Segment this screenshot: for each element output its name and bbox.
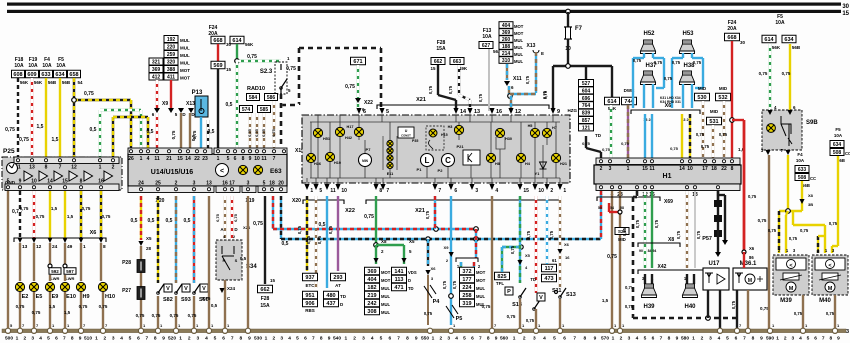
- wire green from 614 with junction: [236, 44, 238, 61]
- svg-text:17: 17: [229, 181, 235, 187]
- svg-text:AT: AT: [335, 283, 341, 288]
- svg-text:5: 5: [263, 181, 266, 187]
- svg-text:0,75: 0,75: [171, 130, 176, 139]
- wire yellow 1,5 from 633 to P25 pin 8: [45, 78, 47, 157]
- svg-text:56K: 56K: [772, 45, 781, 50]
- svg-text:8: 8: [154, 336, 157, 342]
- wire black-white from S2.3 to E63 pin 7: [280, 94, 283, 150]
- svg-text:10A: 10A: [42, 63, 52, 69]
- svg-text:0,5: 0,5: [211, 303, 218, 308]
- instrument cluster: [302, 115, 570, 183]
- wire tag 671: [351, 57, 366, 65]
- svg-text:2: 2: [550, 188, 553, 194]
- svg-text:13: 13: [22, 244, 28, 250]
- svg-text:M: M: [789, 286, 794, 292]
- svg-text:P2: P2: [438, 168, 444, 173]
- svg-text:E2: E2: [22, 294, 29, 300]
- lamp E5: [29, 282, 38, 291]
- svg-text:X21: X21: [415, 208, 425, 214]
- svg-text:0,75: 0,75: [5, 127, 15, 133]
- svg-text:MOT: MOT: [514, 24, 524, 29]
- svg-text:550: 550: [421, 336, 429, 342]
- svg-text:1: 1: [776, 336, 779, 342]
- wire tag 321 320 MUL: [149, 58, 163, 65]
- svg-text:P28: P28: [122, 260, 131, 266]
- svg-text:5: 5: [644, 336, 647, 342]
- svg-text:1: 1: [612, 336, 615, 342]
- tags 951 906 RBS: [303, 291, 318, 299]
- wire black F7 to cluster pin 9: [552, 66, 554, 111]
- svg-text:1: 1: [179, 336, 182, 342]
- wire brown H1 pin 4 to ground bus: [611, 191, 613, 329]
- wire black 0,5 from 569 to U14 pin 1: [217, 69, 219, 150]
- svg-text:S14: S14: [512, 302, 523, 308]
- svg-text:H1: H1: [663, 173, 672, 180]
- wire tag 609: [26, 70, 39, 78]
- cluster top pins: [356, 108, 361, 114]
- svg-text:7: 7: [145, 336, 148, 342]
- svg-text:15: 15: [62, 179, 68, 185]
- svg-text:7: 7: [59, 165, 62, 171]
- svg-text:188: 188: [502, 44, 511, 50]
- svg-text:MUL: MUL: [381, 310, 391, 315]
- svg-text:H10: H10: [105, 294, 115, 300]
- svg-text:0,75: 0,75: [676, 230, 681, 239]
- wire yellow X6 to H1 pin 14: [681, 114, 683, 158]
- svg-text:15A: 15A: [436, 46, 446, 52]
- svg-text:3: 3: [280, 336, 283, 342]
- svg-text:0,75: 0,75: [328, 225, 333, 234]
- svg-text:121: 121: [582, 125, 591, 131]
- svg-text:7: 7: [743, 336, 746, 342]
- svg-text:E11: E11: [387, 172, 394, 176]
- svg-text:61: 61: [552, 258, 557, 263]
- svg-text:P21: P21: [456, 144, 464, 149]
- lamp E10: [60, 282, 69, 291]
- svg-text:S9B: S9B: [806, 120, 818, 126]
- svg-text:6: 6: [652, 336, 655, 342]
- svg-text:P57: P57: [702, 236, 712, 242]
- svg-text:M36.1: M36.1: [740, 261, 757, 267]
- svg-text:260: 260: [502, 37, 511, 43]
- lamp E9: [45, 282, 54, 291]
- svg-text:0,75: 0,75: [748, 194, 757, 199]
- wire red-white P25 pin 10 to lamp E5: [33, 191, 35, 238]
- junction red branch: [730, 118, 735, 123]
- svg-text:X21: X21: [416, 97, 426, 103]
- svg-text:MUL: MUL: [476, 294, 486, 299]
- svg-text:586: 586: [267, 95, 276, 101]
- svg-text:P1: P1: [417, 167, 423, 172]
- heater resistors P28 P27: [140, 246, 142, 329]
- svg-text:2: 2: [103, 336, 106, 342]
- lamp H9: [76, 282, 85, 291]
- wire yellow U14 pin 25 to switch S82: [157, 196, 159, 283]
- svg-text:310: 310: [502, 58, 511, 64]
- svg-text:TFL: TFL: [496, 281, 504, 286]
- sensor P5: [446, 305, 458, 318]
- svg-text:9: 9: [495, 336, 498, 342]
- svg-text:F4: F4: [797, 152, 803, 157]
- svg-text:7: 7: [231, 336, 234, 342]
- wire tag 839: [579, 109, 594, 116]
- svg-text:0,75: 0,75: [136, 313, 145, 318]
- svg-text:V: V: [539, 295, 543, 301]
- svg-text:H51: H51: [323, 137, 330, 141]
- svg-text:3: 3: [609, 166, 612, 172]
- svg-text:6: 6: [55, 336, 58, 342]
- svg-text:56K: 56K: [20, 80, 29, 85]
- wire yellow branch to M40: [792, 211, 794, 225]
- svg-text:LWR: LWR: [66, 276, 75, 281]
- svg-text:0,75: 0,75: [782, 71, 791, 76]
- svg-text:17: 17: [702, 166, 708, 172]
- svg-text:220: 220: [167, 45, 176, 51]
- wire tag 586: [265, 94, 278, 101]
- svg-text:15: 15: [842, 11, 849, 17]
- svg-text:320: 320: [167, 60, 176, 66]
- svg-text:R: R: [223, 258, 226, 263]
- svg-text:H39: H39: [643, 304, 655, 310]
- svg-text:1: 1: [344, 336, 347, 342]
- wire black-white dashed loop: [299, 47, 381, 50]
- svg-text:5: 5: [129, 336, 132, 342]
- svg-text:6: 6: [471, 336, 474, 342]
- wire brown E63 pin 13 to ground bus: [208, 196, 210, 329]
- svg-text:0,75: 0,75: [507, 314, 516, 319]
- svg-text:530: 530: [697, 95, 706, 101]
- wire yellow to S9B pin 6: [789, 44, 791, 112]
- svg-text:V: V: [166, 286, 170, 292]
- switch S14 with P symbol: [519, 296, 522, 299]
- svg-text:258: 258: [462, 293, 471, 299]
- wire red-white from 609 to P25 pin 13: [31, 78, 33, 157]
- svg-text:597: 597: [66, 269, 74, 274]
- svg-text:F7: F7: [575, 26, 583, 32]
- svg-text:308: 308: [367, 309, 376, 315]
- svg-text:0,5: 0,5: [226, 102, 233, 108]
- svg-text:MUL: MUL: [180, 46, 190, 51]
- svg-text:MOT: MOT: [476, 270, 486, 275]
- fuel level gauge P1: [426, 167, 428, 178]
- svg-text:0,5: 0,5: [131, 218, 138, 224]
- svg-text:7: 7: [660, 336, 663, 342]
- svg-text:0,75: 0,75: [79, 304, 88, 309]
- svg-text:9: 9: [594, 336, 597, 342]
- svg-text:0,75: 0,75: [36, 214, 45, 219]
- svg-text:22: 22: [721, 166, 727, 172]
- wire brown-white E63 pin 16 to S34: [224, 196, 226, 242]
- wire tag 192 MUL: [164, 36, 178, 43]
- svg-text:0,75: 0,75: [759, 71, 768, 76]
- switch S82: [157, 292, 160, 295]
- svg-text:4: 4: [147, 156, 150, 162]
- svg-text:H42: H42: [345, 136, 352, 140]
- svg-text:U17: U17: [708, 261, 720, 267]
- wire brown-blue from stack through X11: [506, 64, 508, 80]
- wire black-yellow down to U14 pin 26: [130, 100, 132, 150]
- svg-text:14: 14: [460, 109, 467, 115]
- svg-text:H8: H8: [495, 162, 500, 166]
- svg-text:56K: 56K: [608, 106, 617, 111]
- svg-text:608: 608: [13, 72, 22, 78]
- svg-text:7: 7: [822, 336, 825, 342]
- wire tag 857: [579, 117, 594, 124]
- svg-text:604: 604: [582, 88, 591, 94]
- svg-text:5: 5: [463, 336, 466, 342]
- svg-text:585: 585: [260, 107, 269, 113]
- svg-text:0,75: 0,75: [654, 219, 659, 228]
- wire red cluster pin 10 to TD tags: [535, 196, 537, 293]
- svg-text:2: 2: [23, 336, 26, 342]
- wire tag 663: [450, 58, 464, 65]
- svg-text:H36: H36: [314, 162, 321, 166]
- svg-text:X6: X6: [431, 266, 437, 271]
- wire brown M40 to ground bus: [834, 295, 836, 329]
- wire tag 764: [579, 102, 594, 109]
- tag 293 AT: [331, 273, 346, 281]
- wire blue-red H1 pin 5 to E63: [600, 191, 602, 239]
- svg-text:H3: H3: [448, 125, 453, 129]
- svg-text:H17: H17: [347, 125, 354, 129]
- wire black-yellow from 658 to P25 pin 12: [73, 78, 75, 157]
- svg-text:MID: MID: [719, 86, 728, 91]
- svg-text:P7: P7: [366, 147, 372, 152]
- svg-text:4: 4: [636, 336, 639, 342]
- svg-text:540: 540: [333, 336, 341, 342]
- svg-text:4: 4: [455, 336, 458, 342]
- svg-text:3: 3: [846, 329, 849, 335]
- svg-text:242: 242: [367, 301, 376, 307]
- svg-text:13: 13: [29, 165, 35, 171]
- svg-text:MUL: MUL: [476, 286, 486, 291]
- svg-text:56K: 56K: [245, 42, 254, 47]
- svg-text:3: 3: [791, 336, 794, 342]
- svg-text:H15: H15: [441, 133, 448, 137]
- svg-text:10A: 10A: [834, 133, 843, 138]
- svg-text:CONST: CONST: [401, 134, 411, 138]
- lamp H8: [490, 122, 492, 178]
- svg-text:3: 3: [362, 336, 365, 342]
- svg-text:9: 9: [328, 336, 331, 342]
- svg-text:E10: E10: [66, 294, 76, 300]
- wire tag 412 411 MOT: [149, 73, 163, 80]
- svg-text:F5: F5: [835, 127, 841, 132]
- svg-text:0,75: 0,75: [478, 93, 483, 102]
- svg-text:7: 7: [573, 336, 576, 342]
- switch S93: [175, 292, 178, 295]
- svg-text:2: 2: [188, 336, 191, 342]
- svg-text:P13: P13: [192, 90, 203, 96]
- svg-text:25: 25: [155, 181, 161, 187]
- wire brown-blue U14 pin 2 to switch S93: [175, 196, 177, 283]
- svg-text:7: 7: [312, 336, 315, 342]
- svg-text:8: 8: [379, 188, 382, 194]
- wire black-white to U14 pin 23: [207, 120, 209, 150]
- svg-text:P5: P5: [456, 316, 463, 322]
- svg-text:TD: TD: [340, 294, 347, 299]
- feed rail from F7: [553, 65, 612, 67]
- svg-text:15: 15: [177, 156, 183, 162]
- svg-text:26: 26: [128, 156, 134, 162]
- svg-text:4: 4: [120, 336, 123, 342]
- svg-text:4: 4: [371, 336, 374, 342]
- svg-text:0,75: 0,75: [800, 228, 809, 233]
- svg-text:0,75: 0,75: [826, 311, 835, 316]
- tag 592 LWR: [48, 264, 52, 268]
- svg-text:4: 4: [495, 188, 498, 194]
- svg-text:15: 15: [430, 66, 436, 71]
- svg-text:0,75: 0,75: [364, 214, 374, 220]
- svg-text:569: 569: [213, 63, 222, 69]
- tag S29 MID: [615, 228, 629, 235]
- svg-text:0,75: 0,75: [526, 230, 531, 239]
- wire tag 574: [240, 106, 253, 113]
- svg-text:520: 520: [168, 336, 176, 342]
- green dashed link to S2.3: [237, 60, 281, 62]
- heated seat switch S9B: [762, 110, 802, 150]
- wire tag 627: [479, 42, 493, 49]
- svg-text:0,5: 0,5: [90, 127, 97, 133]
- svg-text:21: 21: [166, 156, 172, 162]
- wire tag 696: [579, 94, 594, 101]
- svg-text:0,5: 0,5: [319, 222, 326, 228]
- svg-text:MOT: MOT: [180, 76, 190, 81]
- svg-text:24: 24: [52, 244, 58, 250]
- svg-text:X13: X13: [527, 43, 536, 49]
- wire brown-white 530 to H1 pin 17: [702, 101, 704, 158]
- wire blue cluster pin 11 to 480: [326, 196, 328, 288]
- svg-text:10: 10: [254, 156, 260, 162]
- wire red-blue U14 pin 3 to switch S95: [193, 196, 195, 283]
- svg-text:5: 5: [380, 336, 383, 342]
- svg-text:580: 580: [681, 336, 689, 342]
- wire red-white E63 pin 17 to S34: [231, 196, 233, 242]
- svg-text:633: 633: [41, 72, 50, 78]
- wire tag 604: [579, 87, 594, 94]
- wire blue-brown from X13 to junction: [535, 52, 537, 93]
- svg-text:1: 1: [513, 336, 516, 342]
- wire tag 259 MUL: [164, 51, 178, 58]
- svg-text:15: 15: [642, 166, 648, 172]
- small red jumper: [608, 203, 610, 212]
- svg-text:0,75: 0,75: [425, 210, 430, 219]
- svg-text:5: 5: [386, 109, 389, 115]
- wire tag 527: [579, 80, 594, 87]
- svg-text:224: 224: [462, 285, 472, 291]
- wire green-white 0,5 from junction to U14 pin 6: [236, 61, 238, 150]
- svg-text:10: 10: [341, 188, 347, 194]
- svg-text:F28: F28: [261, 296, 270, 302]
- svg-text:0,75: 0,75: [102, 214, 111, 219]
- wire green-white from 614 to H1 pin 3: [610, 105, 612, 158]
- blue wiring left speaker pair: [643, 53, 645, 58]
- svg-text:0,75: 0,75: [696, 132, 705, 137]
- svg-text:8: 8: [731, 166, 734, 172]
- svg-text:480: 480: [326, 293, 335, 299]
- svg-text:8: 8: [80, 179, 83, 185]
- svg-text:5: 5: [726, 336, 729, 342]
- wire green H1 pin 16 to speaker H39: [651, 191, 653, 268]
- svg-text:X20: X20: [292, 198, 301, 204]
- svg-text:3: 3: [709, 336, 712, 342]
- svg-text:TD: TD: [595, 133, 602, 138]
- svg-text:857: 857: [582, 118, 591, 124]
- lamp E2: [15, 282, 24, 291]
- lamp H30 with loop: [495, 128, 504, 137]
- svg-text:0,75: 0,75: [510, 245, 515, 254]
- svg-text:592: 592: [51, 269, 59, 274]
- wire blue-green cluster pin 15 to S14: [519, 196, 521, 283]
- junction on black-yellow wire: [74, 99, 131, 101]
- svg-text:182: 182: [367, 285, 376, 291]
- wire black-white from 663 to cluster pin 13: [458, 65, 460, 95]
- svg-text:X8: X8: [381, 239, 387, 244]
- svg-text:214: 214: [502, 51, 511, 57]
- svg-text:10A: 10A: [14, 63, 24, 69]
- wire brown S34 to ground: [224, 280, 226, 329]
- svg-text:10A: 10A: [56, 63, 66, 69]
- svg-text:8: 8: [406, 336, 409, 342]
- bus bar 30: [7, 3, 841, 6]
- svg-text:12: 12: [71, 165, 77, 171]
- svg-text:6: 6: [304, 336, 307, 342]
- svg-text:0,75: 0,75: [247, 54, 257, 60]
- svg-text:634: 634: [55, 72, 65, 78]
- wire tag 310 MUL: [499, 57, 513, 64]
- svg-text:0,75: 0,75: [758, 218, 767, 223]
- svg-text:404: 404: [367, 277, 377, 283]
- lamp H17: [358, 122, 360, 140]
- connector X21 bracket above cluster: [377, 105, 549, 109]
- wire yellow S9B pin 7: [787, 155, 789, 211]
- radio H1: [594, 165, 741, 184]
- svg-text:117: 117: [545, 266, 554, 272]
- svg-text:11: 11: [261, 156, 267, 162]
- svg-text:2: 2: [272, 336, 275, 342]
- svg-text:X5: X5: [525, 253, 531, 258]
- svg-text:H37: H37: [645, 63, 657, 69]
- svg-text:634: 634: [784, 37, 794, 43]
- svg-text:M: M: [828, 286, 833, 292]
- wire blue-red E63 pin 18 elbow: [272, 196, 274, 229]
- svg-text:11: 11: [649, 166, 655, 172]
- lamp H21: [555, 122, 557, 178]
- lamp H5: [534, 122, 536, 178]
- svg-text:0,75: 0,75: [622, 227, 627, 236]
- svg-text:1: 1: [140, 156, 143, 162]
- svg-text:9: 9: [248, 336, 251, 342]
- svg-text:1,5: 1,5: [67, 214, 74, 219]
- svg-text:D: D: [408, 278, 411, 283]
- svg-text:P: P: [507, 289, 511, 295]
- svg-text:X42: X42: [658, 264, 667, 270]
- svg-text:11: 11: [330, 188, 336, 194]
- svg-text:28: 28: [146, 246, 152, 251]
- svg-text:5: 5: [296, 336, 299, 342]
- tags 480 TD 437 D: [324, 291, 339, 299]
- wire brown cluster pin 4 to ground bus: [491, 196, 493, 329]
- svg-text:10: 10: [538, 188, 544, 194]
- wire yellow-black cluster pin 1 to 937: [306, 196, 308, 271]
- wire blue cluster pin 6 down to P5: [450, 196, 452, 325]
- svg-text:13: 13: [474, 109, 480, 115]
- svg-text:9: 9: [415, 336, 418, 342]
- svg-text:9: 9: [760, 336, 763, 342]
- svg-text:0,75: 0,75: [693, 60, 702, 65]
- svg-text:1: 1: [432, 336, 435, 342]
- voltage stabilizer P35: [398, 127, 414, 138]
